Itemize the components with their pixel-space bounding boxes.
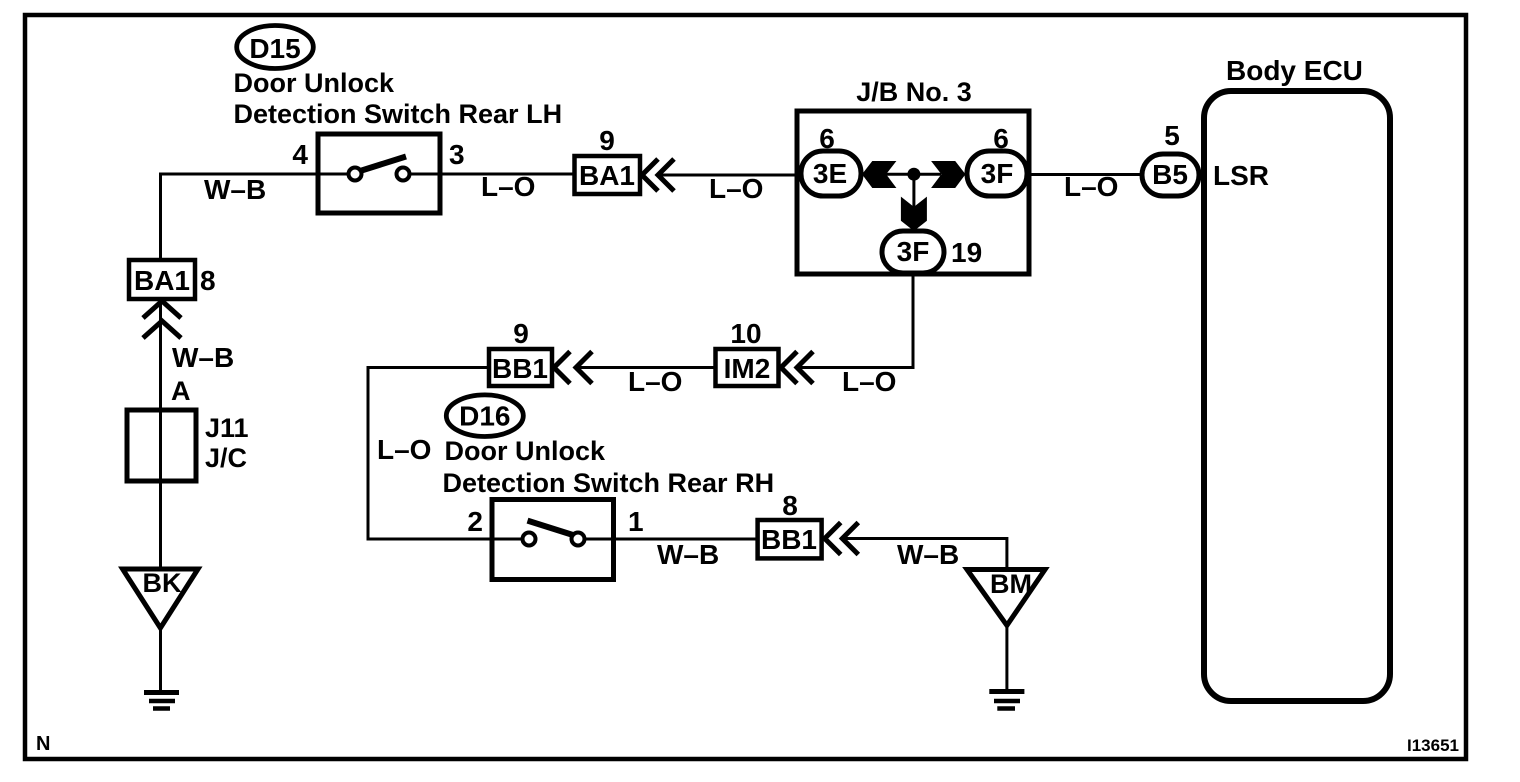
ground symbol (right) bbox=[989, 692, 1024, 709]
svg-text:J/B No. 3: J/B No. 3 bbox=[856, 77, 972, 107]
svg-text:3F: 3F bbox=[981, 158, 1014, 189]
svg-text:3: 3 bbox=[449, 139, 465, 170]
svg-text:LSR: LSR bbox=[1213, 160, 1269, 191]
svg-text:3E: 3E bbox=[813, 158, 847, 189]
solid arrow pointing left bbox=[862, 161, 896, 188]
svg-text:L–O: L–O bbox=[377, 434, 431, 465]
junction node dot bbox=[907, 168, 920, 181]
connector B5 oval bbox=[1142, 154, 1199, 196]
svg-text:4: 4 bbox=[292, 139, 308, 170]
ground triangle BM bbox=[967, 570, 1045, 626]
chevrons at BA1 bbox=[642, 159, 658, 191]
svg-text:W–B: W–B bbox=[897, 539, 959, 570]
connector 3F oval (right) bbox=[967, 151, 1027, 196]
ground triangle BK bbox=[123, 569, 198, 628]
solid arrow pointing right bbox=[931, 161, 965, 188]
svg-text:N: N bbox=[36, 733, 50, 755]
wire L-O from BA1 to J/B No.3 bbox=[659, 174, 803, 177]
svg-text:J11: J11 bbox=[205, 413, 249, 443]
svg-text:5: 5 bbox=[1164, 120, 1180, 151]
svg-text:L–O: L–O bbox=[628, 366, 682, 397]
svg-text:J/C: J/C bbox=[205, 443, 247, 473]
switch D16 (Door Unlock Detection Switch Rear RH) bbox=[492, 500, 614, 580]
chevrons below BA1 (pointing up) bbox=[143, 301, 181, 318]
svg-text:W–B: W–B bbox=[204, 174, 266, 205]
wire L-O from BB1 to IM2 bbox=[577, 366, 715, 369]
svg-text:L–O: L–O bbox=[709, 173, 763, 204]
wire W-B down left column bbox=[159, 299, 162, 410]
svg-text:B5: B5 bbox=[1152, 159, 1188, 190]
svg-text:D15: D15 bbox=[249, 33, 300, 64]
svg-text:BM: BM bbox=[990, 569, 1032, 599]
svg-text:10: 10 bbox=[730, 318, 761, 349]
connector BB1 (middle) bbox=[489, 349, 552, 386]
svg-text:L–O: L–O bbox=[481, 171, 535, 202]
wire from 3F pin 19 down and left to IM2 bbox=[800, 273, 913, 368]
wire to ground bbox=[159, 628, 162, 692]
wire across junction bbox=[886, 173, 941, 176]
connector D15 oval bbox=[237, 26, 314, 69]
svg-text:BA1: BA1 bbox=[134, 265, 190, 296]
svg-text:I13651: I13651 bbox=[1407, 736, 1459, 755]
svg-text:L–O: L–O bbox=[842, 366, 896, 397]
connector BB1 (lower) bbox=[758, 520, 822, 558]
svg-text:2: 2 bbox=[467, 506, 483, 537]
svg-text:BA1: BA1 bbox=[579, 160, 635, 191]
svg-text:Detection Switch Rear RH: Detection Switch Rear RH bbox=[443, 468, 775, 498]
svg-text:L–O: L–O bbox=[1064, 171, 1118, 202]
svg-text:8: 8 bbox=[200, 265, 216, 296]
svg-text:19: 19 bbox=[951, 237, 982, 268]
switch D15 (Door Unlock Detection Switch Rear LH) bbox=[318, 134, 440, 213]
svg-text:BK: BK bbox=[143, 568, 182, 598]
solid arrow pointing down bbox=[901, 197, 927, 231]
svg-text:9: 9 bbox=[513, 318, 529, 349]
connector D16 oval bbox=[446, 395, 523, 437]
svg-text:1: 1 bbox=[628, 506, 644, 537]
wire W-B from switch to BB1 bbox=[614, 538, 758, 541]
connector BA1 (left column) bbox=[129, 260, 195, 299]
svg-text:D16: D16 bbox=[459, 401, 510, 432]
svg-text:9: 9 bbox=[599, 125, 615, 156]
wire W-B from BB1 to ground triangle BM bbox=[843, 539, 1007, 570]
chevrons at BB1 lower bbox=[825, 523, 841, 555]
svg-text:A: A bbox=[171, 376, 191, 406]
svg-text:3F: 3F bbox=[897, 236, 930, 267]
svg-text:Detection Switch Rear LH: Detection Switch Rear LH bbox=[234, 99, 563, 129]
wire to ground bbox=[1005, 625, 1008, 691]
wire from junction dot down bbox=[912, 174, 915, 231]
wire to ground triangle BK bbox=[159, 481, 162, 569]
wire L-O from 3F to B5 bbox=[1027, 173, 1143, 176]
svg-text:BB1: BB1 bbox=[761, 524, 817, 555]
svg-text:Door Unlock: Door Unlock bbox=[445, 436, 606, 466]
connector 3E oval bbox=[801, 151, 861, 196]
svg-text:IM2: IM2 bbox=[724, 353, 771, 384]
svg-text:W–B: W–B bbox=[657, 539, 719, 570]
chevrons at IM2 bbox=[781, 352, 797, 384]
connector IM2 bbox=[716, 349, 779, 386]
svg-text:8: 8 bbox=[782, 490, 798, 521]
svg-text:BB1: BB1 bbox=[492, 353, 548, 384]
connector BA1 (top) bbox=[575, 156, 641, 194]
svg-text:Body ECU: Body ECU bbox=[1226, 55, 1363, 86]
ground symbol (left) bbox=[144, 693, 179, 709]
junction connector J11 J/C bbox=[127, 410, 196, 481]
wire L-O from switch to connector BA1 bbox=[440, 173, 574, 176]
connector 3F oval (bottom) bbox=[882, 231, 944, 273]
wire L-O from BB1 left, down, to switch D16 pin 2 bbox=[368, 368, 492, 540]
svg-text:Door Unlock: Door Unlock bbox=[234, 68, 395, 98]
chevrons at BB1 bbox=[554, 352, 570, 384]
svg-text:W–B: W–B bbox=[172, 342, 234, 373]
wire W-B from node to switch S1 pin 4 bbox=[161, 174, 319, 260]
